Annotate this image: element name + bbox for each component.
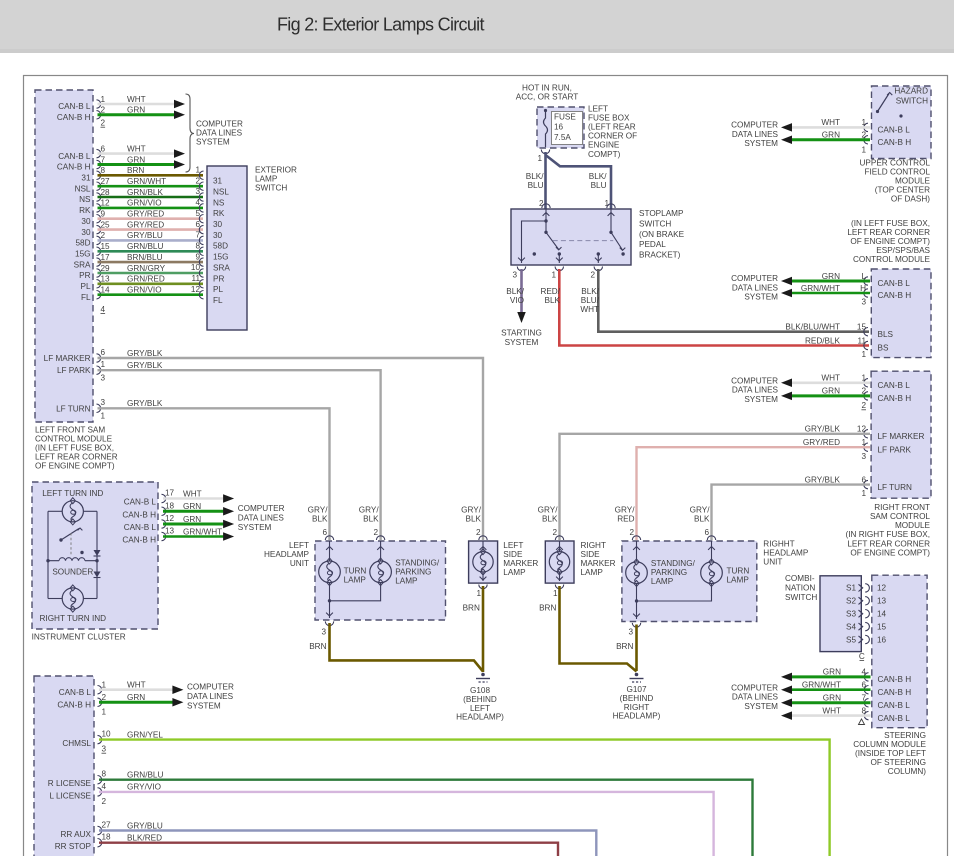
svg-text:BLK/: BLK/ [506,287,524,296]
svg-text:GRY/BLK: GRY/BLK [127,399,163,408]
svg-text:SWITCH: SWITCH [896,97,928,106]
svg-text:LEFT FRONT SAM: LEFT FRONT SAM [35,426,105,435]
svg-text:SYSTEM: SYSTEM [744,293,778,302]
svg-text:OF STEERING: OF STEERING [871,758,927,767]
svg-text:SRA: SRA [213,263,230,272]
svg-text:(INSIDE TOP LEFT: (INSIDE TOP LEFT [855,749,926,758]
svg-text:7: 7 [861,694,866,703]
svg-text:3: 3 [101,398,106,407]
svg-text:CAN-B H: CAN-B H [878,138,912,147]
svg-text:S5: S5 [846,635,856,644]
svg-text:(ON BRAKE: (ON BRAKE [639,230,685,239]
svg-text:2: 2 [102,797,107,806]
svg-text:6: 6 [861,681,866,690]
svg-text:STARTING: STARTING [501,329,542,338]
svg-text:RIGHHT: RIGHHT [763,540,794,549]
svg-text:GRY/: GRY/ [461,506,482,515]
svg-text:STANDING/: STANDING/ [651,559,696,568]
svg-text:COMPUTER: COMPUTER [187,683,234,692]
svg-text:1: 1 [861,146,866,155]
svg-text:16: 16 [877,635,887,644]
svg-text:SYSTEM: SYSTEM [744,702,778,711]
svg-text:COLUMN): COLUMN) [888,767,926,776]
svg-text:GRY/: GRY/ [359,506,380,515]
svg-text:GRY/: GRY/ [615,506,636,515]
svg-text:RK: RK [213,209,225,218]
svg-text:FL: FL [81,293,91,302]
svg-text:GRY/BLK: GRY/BLK [805,425,841,434]
svg-text:RR STOP: RR STOP [55,842,92,851]
svg-text:GRN/GRY: GRN/GRY [127,264,166,273]
svg-text:MARKER: MARKER [503,559,538,568]
svg-text:COMPUTER: COMPUTER [731,376,778,385]
svg-text:GRY/RED: GRY/RED [803,438,840,447]
svg-text:30: 30 [213,220,223,229]
svg-text:LF TURN: LF TURN [878,483,913,492]
svg-text:PARKING: PARKING [651,568,687,577]
svg-text:GRN/WHT: GRN/WHT [127,177,166,186]
svg-text:LAMP: LAMP [395,577,418,586]
svg-text:NSL: NSL [213,188,229,197]
svg-text:FL: FL [213,296,223,305]
svg-text:COMPT): COMPT) [588,150,621,159]
svg-text:CAN-B H: CAN-B H [57,701,91,710]
svg-text:PARKING: PARKING [395,567,431,576]
svg-text:29: 29 [101,264,111,273]
svg-text:BS: BS [878,344,889,353]
svg-text:SYSTEM: SYSTEM [505,338,539,347]
svg-text:SYSTEM: SYSTEM [744,139,778,148]
svg-text:OF ENGINE COMPT): OF ENGINE COMPT) [850,237,930,246]
svg-text:CHMSL: CHMSL [62,739,91,748]
svg-text:ESP/SPS/BAS: ESP/SPS/BAS [876,246,930,255]
svg-text:LF MARKER: LF MARKER [878,432,925,441]
svg-text:CAN-B H: CAN-B H [878,688,912,697]
svg-text:18: 18 [102,833,112,842]
svg-text:(IN LEFT FUSE BOX,: (IN LEFT FUSE BOX, [851,219,930,228]
svg-text:1: 1 [101,95,106,104]
svg-text:GRY/BLU: GRY/BLU [127,231,163,240]
svg-text:GRN: GRN [822,387,840,396]
svg-text:1: 1 [861,350,866,359]
svg-text:13: 13 [101,275,111,284]
svg-text:27: 27 [101,177,111,186]
svg-text:GRN/WHT: GRN/WHT [183,527,222,536]
svg-text:HEADLAMP): HEADLAMP) [456,713,504,722]
svg-text:HEADLAMP): HEADLAMP) [613,712,661,721]
svg-text:1: 1 [553,589,558,598]
svg-text:LEFT REAR CORNER: LEFT REAR CORNER [847,228,930,237]
svg-text:12: 12 [165,514,175,523]
svg-text:GRN: GRN [183,502,201,511]
svg-text:WHT: WHT [822,706,841,715]
svg-text:7.5A: 7.5A [554,133,571,142]
svg-text:RK: RK [79,206,91,215]
svg-text:LF PARK: LF PARK [57,366,91,375]
svg-text:BLK: BLK [542,515,558,524]
svg-text:GRY/BLK: GRY/BLK [805,475,841,484]
svg-text:1: 1 [861,489,866,498]
svg-text:RED/: RED/ [540,287,560,296]
svg-text:GRY/: GRY/ [538,506,559,515]
svg-text:RED: RED [617,515,634,524]
svg-text:BLK/: BLK/ [526,172,544,181]
svg-text:CAN-B L: CAN-B L [878,714,911,723]
svg-text:BLK/BLU/WHT: BLK/BLU/WHT [785,323,840,332]
svg-text:CAN-B L: CAN-B L [58,102,91,111]
svg-text:CAN-B H: CAN-B H [878,675,912,684]
svg-text:FUSE: FUSE [554,113,576,122]
svg-text:COMPUTER: COMPUTER [196,120,243,129]
svg-text:OF ENGINE COMPT): OF ENGINE COMPT) [850,548,930,557]
svg-text:ENGINE: ENGINE [588,141,620,150]
svg-text:CAN-B L: CAN-B L [124,498,157,507]
svg-text:GRY/RED: GRY/RED [127,210,164,219]
svg-text:MODULE: MODULE [895,521,931,530]
svg-text:WHT: WHT [127,95,146,104]
svg-text:BLK: BLK [312,515,328,524]
svg-text:OF ENGINE COMPT): OF ENGINE COMPT) [35,462,115,471]
svg-text:L LICENSE: L LICENSE [49,791,91,800]
svg-text:STEERING: STEERING [884,731,926,740]
svg-text:8: 8 [195,242,200,251]
svg-text:SWITCH: SWITCH [255,184,287,193]
svg-text:8: 8 [861,706,866,715]
svg-text:BLU: BLU [528,181,544,190]
svg-text:SYSTEM: SYSTEM [238,523,272,532]
svg-text:CAN-B L: CAN-B L [878,381,911,390]
svg-text:17: 17 [101,253,111,262]
svg-text:GRN: GRN [183,515,201,524]
svg-text:31: 31 [213,177,223,186]
svg-text:LAMP: LAMP [651,577,674,586]
svg-text:GRN/BLU: GRN/BLU [127,242,163,251]
svg-text:1: 1 [195,166,200,175]
svg-text:3: 3 [195,187,200,196]
svg-text:LAMP: LAMP [581,568,604,577]
svg-text:15G: 15G [75,250,90,259]
svg-text:RED/BLK: RED/BLK [805,336,841,345]
svg-text:H: H [860,284,866,293]
svg-text:GRN/VIO: GRN/VIO [127,286,162,295]
svg-text:RIGHT TURN IND: RIGHT TURN IND [40,614,107,623]
svg-text:CAN-B L: CAN-B L [124,523,157,532]
svg-text:GRN/RED: GRN/RED [127,275,165,284]
svg-text:BRN/BLU: BRN/BLU [127,253,163,262]
svg-text:HEADLAMP: HEADLAMP [763,549,809,558]
svg-text:10: 10 [102,730,112,739]
svg-text:15: 15 [877,622,887,631]
svg-text:GRY/BLK: GRY/BLK [127,349,163,358]
svg-text:BRACKET): BRACKET) [639,251,681,260]
svg-text:13: 13 [165,527,175,536]
svg-text:31: 31 [81,174,91,183]
svg-text:10: 10 [191,263,201,272]
svg-text:L: L [861,272,866,281]
svg-text:GRY/RED: GRY/RED [127,220,164,229]
svg-text:FUSE BOX: FUSE BOX [588,114,630,123]
svg-text:BLK/RED: BLK/RED [127,834,162,843]
svg-text:9: 9 [101,210,106,219]
svg-text:BLK/: BLK/ [589,172,607,181]
svg-text:FIELD CONTROL: FIELD CONTROL [864,168,930,177]
svg-text:RIGHT: RIGHT [624,703,649,712]
svg-text:DATA LINES: DATA LINES [187,692,234,701]
svg-text:PR: PR [79,271,90,280]
svg-text:HEADLAMP: HEADLAMP [264,550,310,559]
svg-text:UNIT: UNIT [763,558,782,567]
svg-text:SRA: SRA [74,260,91,269]
svg-text:2: 2 [552,528,557,537]
svg-text:GRN/YEL: GRN/YEL [127,730,163,739]
svg-text:G107: G107 [626,685,646,694]
svg-text:SIDE: SIDE [581,550,601,559]
svg-text:27: 27 [102,821,112,830]
svg-text:BLU/: BLU/ [581,296,600,305]
svg-text:CAN-B H: CAN-B H [57,113,91,122]
svg-text:S1: S1 [846,584,856,593]
svg-text:WHT: WHT [127,681,146,690]
svg-text:1: 1 [101,412,106,421]
svg-text:CAN-B H: CAN-B H [878,394,912,403]
svg-text:GRY/: GRY/ [690,506,711,515]
svg-text:CAN-B H: CAN-B H [57,163,91,172]
svg-text:BRN: BRN [616,642,633,651]
svg-text:(IN RIGHT FUSE BOX,: (IN RIGHT FUSE BOX, [846,530,930,539]
svg-text:BLK/: BLK/ [581,287,599,296]
svg-text:GRY/BLK: GRY/BLK [127,361,163,370]
svg-text:58D: 58D [213,242,228,251]
svg-text:GRY/: GRY/ [308,506,329,515]
svg-text:8: 8 [102,770,107,779]
svg-text:DATA LINES: DATA LINES [732,130,779,139]
svg-text:LEFT: LEFT [588,105,608,114]
svg-text:NS: NS [213,198,225,207]
svg-text:ACC, OR START: ACC, OR START [516,93,578,102]
svg-text:GRN/BLU: GRN/BLU [127,771,163,780]
svg-text:15: 15 [857,323,867,332]
svg-text:2: 2 [101,106,106,115]
svg-text:COMBI-: COMBI- [785,574,815,583]
svg-text:8: 8 [101,166,106,175]
svg-text:G108: G108 [470,686,490,695]
svg-text:GRN: GRN [822,272,840,281]
svg-text:GRY/BLU: GRY/BLU [127,821,163,830]
svg-text:EXTERIOR: EXTERIOR [255,166,297,175]
svg-text:15: 15 [101,242,111,251]
svg-text:CAN-B H: CAN-B H [122,536,156,545]
svg-text:Fig 2: Exterior Lamps Circuit: Fig 2: Exterior Lamps Circuit [277,15,484,35]
svg-text:6: 6 [101,144,106,153]
svg-text:MARKER: MARKER [581,559,616,568]
svg-text:SWITCH: SWITCH [639,219,671,228]
svg-text:GRN/WHT: GRN/WHT [801,284,840,293]
svg-text:3: 3 [101,374,106,383]
svg-text:3: 3 [512,271,517,280]
svg-text:LF TURN: LF TURN [56,404,91,413]
svg-text:28: 28 [101,188,111,197]
svg-text:(BEHIND: (BEHIND [463,695,497,704]
svg-text:SAM CONTROL: SAM CONTROL [870,512,930,521]
svg-text:COMPUTER: COMPUTER [731,274,778,283]
svg-text:12: 12 [101,199,111,208]
svg-text:BLK: BLK [694,515,710,524]
svg-text:NS: NS [79,195,91,204]
svg-text:RR AUX: RR AUX [61,830,92,839]
svg-text:2: 2 [102,693,107,702]
svg-text:16: 16 [554,123,564,132]
svg-text:1: 1 [102,708,107,717]
svg-text:15G: 15G [213,253,228,262]
svg-text:DATA LINES: DATA LINES [732,386,779,395]
svg-text:1: 1 [551,271,556,280]
svg-text:(TOP CENTER: (TOP CENTER [875,186,930,195]
svg-text:DATA LINES: DATA LINES [238,514,285,523]
svg-text:BRN: BRN [463,603,480,612]
svg-text:3: 3 [102,745,107,754]
svg-text:GRN: GRN [823,668,841,677]
svg-text:LEFT: LEFT [470,704,490,713]
svg-text:6: 6 [322,528,327,537]
svg-text:GRN: GRN [822,131,840,140]
svg-text:1: 1 [861,438,866,447]
svg-text:12: 12 [857,425,867,434]
svg-text:GRN/BLK: GRN/BLK [127,188,163,197]
svg-text:2: 2 [629,528,634,537]
svg-text:LEFT: LEFT [503,541,523,550]
svg-text:S3: S3 [846,610,856,619]
svg-text:DATA LINES: DATA LINES [732,693,779,702]
svg-text:1: 1 [861,374,866,383]
svg-text:3: 3 [321,628,326,637]
svg-text:SYSTEM: SYSTEM [196,138,230,147]
svg-text:4: 4 [101,305,106,314]
svg-text:2: 2 [861,387,866,396]
svg-text:LAMP: LAMP [727,576,750,585]
svg-text:HOT IN RUN,: HOT IN RUN, [522,84,572,93]
svg-text:(IN LEFT FUSE BOX,: (IN LEFT FUSE BOX, [35,444,114,453]
svg-text:GRN: GRN [127,155,145,164]
svg-text:LEFT REAR CORNER: LEFT REAR CORNER [847,539,930,548]
svg-text:STOPLAMP: STOPLAMP [639,209,684,218]
svg-text:2: 2 [101,231,106,240]
svg-text:1: 1 [101,360,106,369]
svg-text:LEFT: LEFT [289,541,309,550]
svg-text:CORNER OF: CORNER OF [588,132,637,141]
svg-text:NSL: NSL [75,184,91,193]
svg-text:6: 6 [704,528,709,537]
svg-text:5: 5 [195,209,200,218]
svg-text:WHT: WHT [580,305,599,314]
svg-text:INSTRUMENT CLUSTER: INSTRUMENT CLUSTER [32,633,126,642]
svg-text:LAMP: LAMP [255,175,278,184]
svg-text:COMPUTER: COMPUTER [238,504,285,513]
svg-text:CAN-B L: CAN-B L [58,152,91,161]
svg-text:1: 1 [102,681,107,690]
svg-text:12: 12 [877,584,887,593]
svg-text:18: 18 [165,501,175,510]
svg-text:CAN-B L: CAN-B L [878,701,911,710]
svg-text:C: C [859,652,865,661]
svg-text:LF PARK: LF PARK [878,445,912,454]
svg-text:30: 30 [81,228,91,237]
svg-text:30: 30 [213,231,223,240]
svg-text:OF DASH): OF DASH) [891,195,930,204]
svg-text:BRN: BRN [539,603,556,612]
svg-text:LAMP: LAMP [344,576,367,585]
svg-text:BRN: BRN [127,166,144,175]
svg-text:WHT: WHT [127,144,146,153]
svg-text:UPPER CONTROL: UPPER CONTROL [859,158,930,167]
svg-text:1: 1 [537,154,542,163]
svg-text:S4: S4 [846,622,856,631]
svg-text:6: 6 [861,475,866,484]
svg-text:R LICENSE: R LICENSE [48,779,92,788]
svg-text:S2: S2 [846,597,856,606]
svg-text:UNIT: UNIT [290,559,309,568]
svg-text:(LEFT REAR: (LEFT REAR [588,123,636,132]
svg-text:BRN: BRN [309,642,326,651]
svg-text:2: 2 [476,528,481,537]
svg-text:LEFT TURN IND: LEFT TURN IND [42,489,103,498]
svg-text:2: 2 [590,271,595,280]
svg-text:GRN: GRN [823,694,841,703]
svg-text:14: 14 [877,610,887,619]
svg-text:BLK: BLK [545,296,561,305]
svg-text:COLUMN MODULE: COLUMN MODULE [853,740,926,749]
svg-text:CAN-B L: CAN-B L [59,688,92,697]
svg-text:GRY/VIO: GRY/VIO [127,783,161,792]
svg-text:MODULE: MODULE [895,177,931,186]
svg-text:DATA LINES: DATA LINES [196,129,243,138]
svg-text:SOUNDER: SOUNDER [52,568,93,577]
svg-text:(BEHIND: (BEHIND [620,694,654,703]
svg-text:PR: PR [213,274,224,283]
svg-text:COMPUTER: COMPUTER [731,683,778,692]
svg-text:58D: 58D [75,239,90,248]
svg-text:WHT: WHT [821,118,840,127]
svg-text:GRN/VIO: GRN/VIO [127,199,162,208]
svg-text:9: 9 [195,252,200,261]
svg-text:2: 2 [861,401,866,410]
svg-text:BLK: BLK [363,515,379,524]
svg-text:CAN-B H: CAN-B H [122,510,156,519]
svg-text:SWITCH: SWITCH [785,593,817,602]
svg-text:GRN: GRN [127,106,145,115]
svg-text:14: 14 [101,286,111,295]
svg-text:CONTROL MODULE: CONTROL MODULE [853,255,931,264]
svg-text:GRN: GRN [127,693,145,702]
svg-text:2: 2 [374,528,379,537]
svg-text:PL: PL [80,282,90,291]
svg-text:2: 2 [195,176,200,185]
svg-text:WHT: WHT [183,489,202,498]
svg-text:BLK: BLK [466,515,482,524]
svg-text:CAN-B L: CAN-B L [878,126,911,135]
svg-text:NATION: NATION [785,584,815,593]
svg-text:TURN: TURN [344,567,367,576]
svg-text:11: 11 [858,336,867,345]
svg-text:BLS: BLS [878,330,894,339]
svg-text:RIGHT FRONT: RIGHT FRONT [874,503,930,512]
svg-text:VIO: VIO [510,296,524,305]
svg-text:7: 7 [101,155,106,164]
svg-text:4: 4 [861,668,866,677]
svg-text:DATA LINES: DATA LINES [732,283,779,292]
svg-text:BLU: BLU [591,181,607,190]
svg-text:17: 17 [165,489,175,498]
svg-text:TURN: TURN [727,567,750,576]
